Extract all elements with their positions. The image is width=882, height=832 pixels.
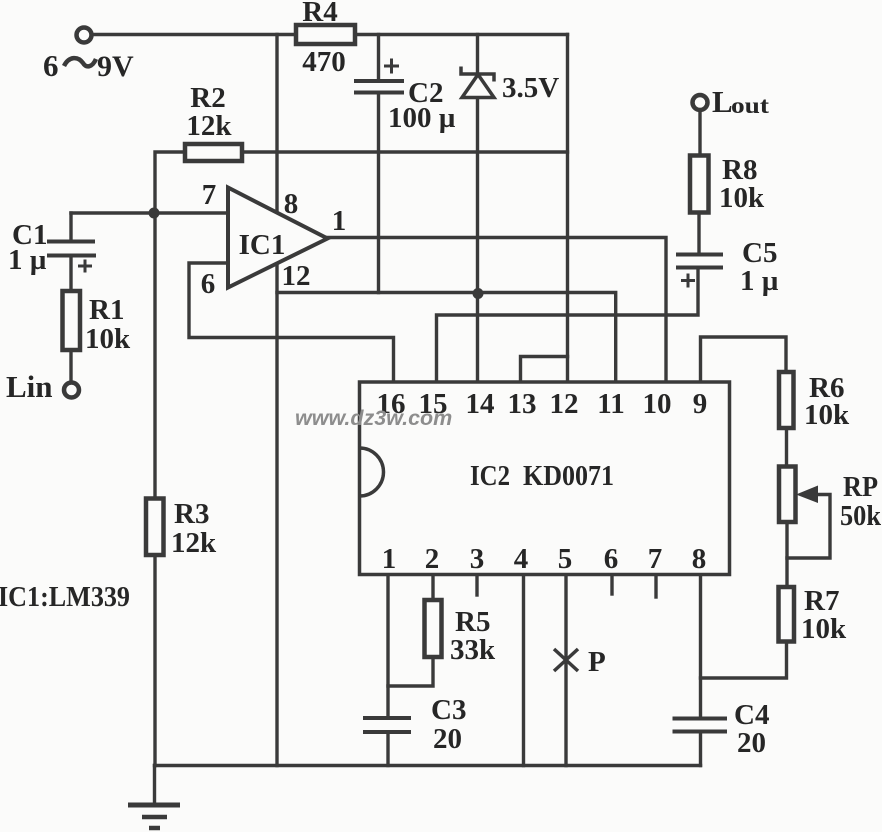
svg-text:8: 8 (284, 188, 299, 220)
wire Lout to R8 (698, 111, 701, 156)
wire IC2 pin8 to C4 (699, 575, 702, 719)
wire zener bottom lead to IC2 pin14 (476, 97, 479, 382)
wire C1 top lead (69, 213, 72, 241)
zener diode 3.5V (461, 67, 494, 98)
wire R1 to Lin (69, 350, 72, 382)
svg-text:12: 12 (282, 260, 311, 292)
svg-text:12k: 12k (171, 527, 217, 559)
svg-text:13: 13 (508, 388, 537, 420)
terminal Lout (693, 95, 708, 110)
resistor R4 (296, 25, 355, 44)
svg-text:12: 12 (550, 388, 579, 420)
svg-text:20: 20 (737, 727, 766, 759)
wire IC1 pin8 drop (275, 35, 278, 213)
wire IC2 pin5 to ground rail (564, 575, 567, 766)
potentiometer RP body (779, 467, 796, 523)
svg-text:3: 3 (470, 543, 485, 575)
wire IC1 pin6 loop to IC2 pin16 (189, 263, 394, 382)
svg-text:1: 1 (332, 205, 347, 237)
svg-text:3.5V: 3.5V (502, 72, 559, 104)
wire zener top lead (476, 35, 479, 75)
wire IC2 pin13 bracket (521, 357, 568, 383)
capacitor C5 plus (681, 274, 695, 288)
capacitor C4 (673, 719, 728, 732)
svg-text:Lin: Lin (6, 369, 53, 404)
wire IC1 pin12 drop to ground rail (275, 264, 278, 766)
svg-text:8: 8 (692, 543, 707, 575)
wire ground rail (155, 764, 701, 767)
resistor R8 (690, 156, 709, 213)
wire R2 left lead (155, 152, 185, 213)
wire R8 to C5 (697, 213, 700, 255)
wire pin12 branch to IC2 pin11 (277, 293, 616, 383)
wire R5 bottom branch (388, 657, 433, 686)
svg-text:C3: C3 (431, 694, 466, 726)
svg-text:10k: 10k (719, 182, 765, 214)
svg-text:4: 4 (514, 543, 529, 575)
wire IC2 pin3 stub (475, 575, 478, 596)
terminal Lin (64, 383, 79, 398)
wire IC2 pin7 stub (654, 575, 657, 598)
svg-text:11: 11 (597, 388, 624, 420)
resistor R6 (779, 372, 794, 428)
svg-text:1 µ: 1 µ (8, 244, 47, 276)
label 6~9V (43, 48, 134, 83)
svg-text:20: 20 (433, 723, 462, 755)
svg-text:33k: 33k (450, 634, 496, 666)
svg-text:470: 470 (302, 46, 346, 78)
svg-text:14: 14 (466, 388, 495, 420)
resistor R7 (779, 587, 795, 642)
svg-text:P: P (588, 646, 606, 678)
svg-text:R3: R3 (174, 498, 209, 530)
wire C3 bottom lead (386, 732, 389, 766)
svg-text:www.dz3w.com: www.dz3w.com (295, 406, 452, 430)
op-amp IC1 (228, 188, 328, 288)
svg-text:5: 5 (558, 543, 573, 575)
wire IC2 pin15 to C5 (437, 268, 699, 383)
svg-text:R4: R4 (302, 0, 337, 28)
wire RP wiper tail (787, 495, 830, 559)
svg-text:7: 7 (648, 543, 663, 575)
node A (pin7 junction) (149, 208, 160, 219)
wire C2 bottom lead (377, 93, 380, 293)
svg-text:10k: 10k (804, 399, 850, 431)
resistor R2 (185, 144, 242, 161)
svg-text:9V: 9V (97, 50, 134, 83)
label Lout (712, 84, 769, 119)
wire R7 bottom to IC2 pin8 (701, 642, 787, 679)
svg-text:out: out (731, 93, 769, 118)
wire IC2 pin4 to ground rail (522, 575, 525, 766)
wire R3 bottom to ground rail (153, 555, 156, 766)
wire IC2 pin2 to R5 (431, 575, 434, 601)
svg-text:100 µ: 100 µ (388, 102, 456, 134)
wire top rail (92, 33, 568, 36)
wire C4 bottom lead (699, 732, 702, 766)
svg-text:R1: R1 (89, 294, 124, 326)
svg-text:6: 6 (43, 48, 59, 83)
wire ground stub (153, 766, 156, 806)
svg-text:1: 1 (382, 543, 397, 575)
resistor R5 (425, 600, 442, 657)
resistor R3 (146, 499, 164, 556)
wire RP bottom to R7 (785, 522, 788, 587)
svg-text:10: 10 (643, 388, 672, 420)
wire R6 to RP (785, 430, 788, 467)
svg-text:10k: 10k (801, 613, 847, 645)
ground (128, 805, 180, 828)
potentiometer RP arrow (796, 486, 818, 504)
capacitor C3 (363, 718, 411, 732)
wire R2 right lead (242, 150, 568, 153)
svg-text:2: 2 (425, 543, 440, 575)
wire C2 top lead (377, 35, 380, 82)
wire node to R3 top (153, 213, 156, 499)
svg-text:RP: RP (843, 471, 878, 503)
svg-text:IC1:LM339: IC1:LM339 (0, 581, 130, 613)
svg-text:KD0071: KD0071 (523, 460, 614, 492)
capacitor C1 plus (78, 260, 92, 273)
test point P cross (554, 649, 578, 671)
svg-text:9: 9 (693, 388, 708, 420)
svg-text:10k: 10k (85, 323, 131, 355)
IC2 KD0071 body (360, 382, 730, 575)
svg-text:1 µ: 1 µ (740, 265, 779, 297)
wire IC2 pin6 stub (610, 575, 613, 595)
IC2 notch (360, 448, 384, 496)
terminal 6~9V (77, 28, 92, 43)
wire C1 bottom to R1 (69, 256, 72, 291)
capacitor C5 (676, 255, 723, 268)
wire IC1 pin7 line (71, 211, 228, 214)
svg-text:6: 6 (604, 543, 619, 575)
node B (zener/pin12 junction) (473, 288, 484, 299)
svg-text:L: L (712, 84, 733, 119)
svg-text:7: 7 (202, 179, 217, 211)
svg-text:6: 6 (201, 268, 216, 300)
resistor R1 (63, 291, 81, 350)
svg-text:IC2: IC2 (470, 460, 510, 492)
wire IC2 pin1 to C3 (386, 575, 389, 719)
svg-text:50k: 50k (840, 500, 882, 532)
capacitor C2 (354, 81, 404, 93)
wire IC2 pin9 to R6 (701, 337, 787, 382)
svg-text:IC1: IC1 (239, 229, 286, 261)
wire IC1 output to IC2 pin10 (327, 238, 666, 383)
svg-text:12k: 12k (186, 110, 232, 142)
wire rail end down to IC2 pin12 (566, 35, 569, 383)
capacitor C1 (47, 242, 96, 256)
capacitor C2 plus (384, 59, 399, 74)
